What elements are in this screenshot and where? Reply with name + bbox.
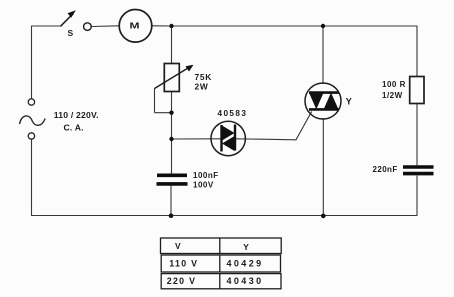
svg-text:220nF: 220nF — [373, 165, 398, 174]
svg-text:40430: 40430 — [227, 276, 264, 286]
junction: top rail / pot branch — [169, 24, 173, 28]
wire: triac to bottom rail — [322, 119, 324, 216]
svg-text:110 / 220V.: 110 / 220V. — [54, 110, 99, 120]
svg-text:C. A.: C. A. — [64, 122, 84, 132]
junction: bottom rail / triac branch — [321, 214, 326, 219]
wire: top rail left lead to switch — [32, 25, 61, 27]
potentiometer R1 75K 2W — [155, 64, 212, 113]
wire: capacitor C2 to bottom rail — [170, 186, 172, 216]
diac D1 40583 — [211, 109, 247, 156]
capacitor C2 100nF 100V — [157, 171, 219, 190]
switch S — [61, 10, 92, 38]
svg-text:100V: 100V — [193, 181, 214, 190]
wire: pot branch from top rail — [171, 26, 173, 64]
wire: left rail lower segment — [31, 139, 33, 216]
wire: left rail upper segment — [31, 26, 33, 99]
junction: wiper loop — [169, 111, 173, 115]
svg-text:V: V — [175, 241, 181, 251]
wire: motor to pot junction — [152, 25, 172, 27]
junction: top rail / triac branch — [321, 24, 325, 28]
svg-text:Y: Y — [346, 97, 352, 107]
junction: bottom rail / capacitor branch — [169, 213, 174, 218]
svg-text:2W: 2W — [195, 81, 209, 91]
wire: switch terminal to motor — [92, 25, 120, 28]
svg-text:1/2W: 1/2W — [382, 91, 403, 100]
resistor R2 100R 1/2W — [382, 77, 424, 104]
wire: triac branch from top rail — [322, 26, 324, 84]
AC source 110/220V C.A. — [20, 99, 99, 139]
wire: diac right lead to gate bend — [236, 139, 297, 140]
svg-text:40429: 40429 — [227, 259, 264, 269]
triac Q1 Y — [305, 83, 352, 119]
junction: diac branch — [169, 137, 173, 141]
svg-text:S: S — [68, 28, 74, 38]
wire: resistor to capacitor C3 — [416, 104, 418, 166]
wire: pot to diac junction — [171, 92, 173, 140]
wire: diac junction down to capacitor C2 — [171, 139, 173, 174]
wire: top rail right segment — [323, 25, 417, 27]
svg-text:220 V: 220 V — [167, 276, 197, 286]
svg-text:110 V: 110 V — [169, 259, 198, 269]
capacitor C3 220nF — [373, 165, 434, 174]
wire: right rail upper (to resistor) — [416, 26, 418, 77]
motor M — [119, 10, 152, 43]
wire: top rail middle segment — [172, 25, 324, 27]
svg-text:100nF: 100nF — [193, 171, 219, 180]
wire: bottom rail — [32, 215, 418, 217]
svg-text:100 R: 100 R — [382, 80, 406, 89]
svg-text:40583: 40583 — [218, 109, 248, 118]
table: V / Y selection — [161, 238, 282, 289]
wire: triac gate diagonal — [296, 112, 312, 140]
svg-text:Y: Y — [243, 242, 249, 252]
wire: diac junction to diac left lead — [172, 138, 222, 140]
wire: capacitor C3 to bottom rail — [416, 176, 418, 216]
svg-text:M: M — [130, 22, 140, 31]
